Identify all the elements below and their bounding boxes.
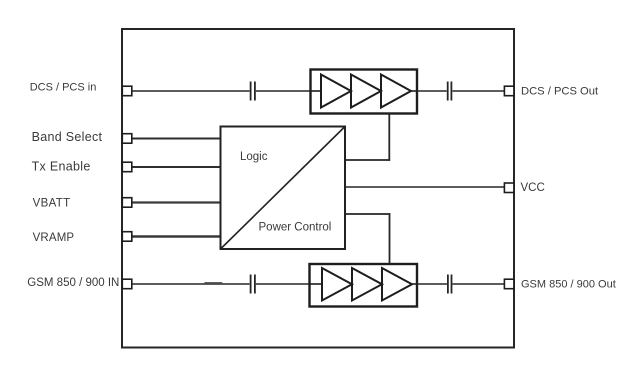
svg-text:GSM 850 / 900 Out: GSM 850 / 900 Out — [521, 279, 616, 291]
wire C1 to amplifier U1 input — [256, 90, 321, 92]
wire U2 input inside box — [310, 283, 323, 285]
wire C2 to DCS/PCS Out pin — [452, 90, 505, 92]
wire Tx Enable (pin to logic box) — [131, 166, 221, 168]
wire GSM 850/900 IN (pin to C3) — [131, 283, 250, 285]
wire U1 output to box edge — [411, 90, 417, 92]
pin VBATT — [122, 198, 132, 208]
wire DCS/PCS in (pin to C1) — [131, 90, 250, 92]
wire U3 to U2 bias (horizontal) — [345, 213, 390, 215]
svg-text:VCC: VCC — [521, 182, 545, 194]
outer module boundary — [122, 29, 514, 348]
wire U2 output to box edge — [412, 283, 417, 285]
svg-text:VRAMP: VRAMP — [33, 232, 75, 244]
wire U3 to U1 bias (horizontal) — [345, 159, 390, 161]
wire VRAMP (pin to logic box) — [131, 235, 221, 237]
svg-text:DCS / PCS Out: DCS / PCS Out — [521, 86, 599, 98]
pin Band Select — [122, 134, 132, 144]
amplifier U2 box (GSM chain) — [310, 264, 418, 307]
wire U1 output to C2 — [417, 90, 447, 92]
wire VBATT (pin to logic box) — [131, 201, 221, 203]
svg-text:Power Control: Power Control — [259, 221, 332, 233]
svg-text:Band Select: Band Select — [32, 130, 103, 144]
pin DCS/PCS Out — [504, 86, 514, 96]
pin VRAMP — [122, 232, 132, 242]
capacitor C3 (GSM input DC block) — [251, 275, 255, 294]
wire U3 to U1 bias (vertical) — [388, 114, 390, 161]
pin GSM 850/900 IN — [122, 279, 132, 289]
amplifier U1 stage 2 triangle — [351, 75, 381, 108]
pin DCS/PCS in — [122, 86, 132, 96]
capacitor C4 (GSM output DC block) — [448, 275, 452, 294]
capacitor C1 (DCS/PCS input DC block) — [251, 82, 255, 101]
pin VCC — [504, 183, 514, 193]
amplifier U2 stage 1 triangle — [322, 268, 352, 301]
capacitor C2 (DCS/PCS output DC block) — [448, 82, 452, 101]
amplifier U2 stage 3 triangle — [382, 268, 412, 301]
amplifier U1 box (DCS/PCS chain) — [311, 70, 418, 114]
pin GSM 850/900 Out — [504, 279, 514, 289]
wire U2 output to C4 — [417, 283, 447, 285]
wire C3 to amplifier U2 input — [256, 283, 322, 285]
wire VCC (logic box to VCC pin) — [345, 186, 505, 188]
svg-text:VBATT: VBATT — [33, 197, 71, 209]
U3 diagonal divider — [221, 127, 346, 250]
logic / power control block U3 — [221, 127, 346, 250]
wire junction artifact on GSM input line — [204, 282, 222, 284]
wire U1 input inside box — [311, 90, 322, 92]
svg-text:GSM 850 / 900 IN: GSM 850 / 900 IN — [27, 277, 119, 289]
amplifier U1 stage 1 triangle — [321, 75, 351, 108]
amplifier U2 stage 2 triangle — [352, 268, 382, 301]
wire Band Select (pin to logic box) — [131, 138, 221, 140]
svg-text:Tx Enable: Tx Enable — [32, 160, 91, 174]
svg-text:DCS / PCS in: DCS / PCS in — [30, 82, 97, 94]
wire U3 to U2 bias (vertical) — [389, 213, 391, 264]
wire C4 to GSM Out pin — [453, 283, 506, 285]
pin Tx Enable — [122, 162, 132, 172]
amplifier U1 stage 3 triangle — [381, 75, 411, 108]
svg-text:Logic: Logic — [240, 151, 268, 163]
